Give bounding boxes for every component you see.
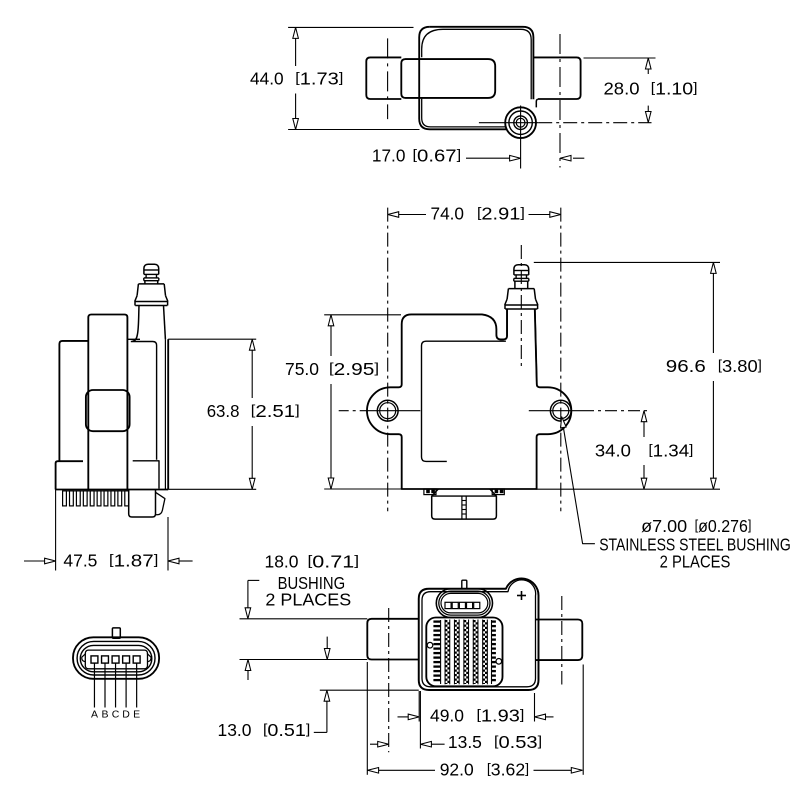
side view: left flange	[56, 461, 83, 489]
dimension 18.0 leader and arrows	[248, 579, 259, 581]
svg-text:17.0: 17.0	[372, 146, 406, 166]
svg-text:[1.87]: [1.87]	[109, 551, 158, 571]
dimension 47.5 left extension line	[55, 490, 57, 571]
connector face view: key tab	[112, 628, 120, 638]
top view: left tab centerline	[387, 38, 389, 119]
bottom view: connector outer oval	[436, 589, 492, 618]
dimension 44.0 top extension line	[288, 26, 413, 28]
front view: connector flange trapezoid	[432, 489, 497, 496]
connector face view: third shell oval	[80, 645, 152, 671]
front view: right ear bushing circles	[550, 400, 571, 421]
bottom view: left tab centerline	[388, 608, 390, 752]
svg-text:[1.10]: [1.10]	[651, 79, 698, 99]
svg-text:[ø0.276]: [ø0.276]	[695, 516, 752, 536]
side view: tower boot left edge	[132, 306, 139, 342]
side view: bottom connector	[129, 490, 156, 517]
svg-text:[1.34]: [1.34]	[649, 441, 694, 461]
dimension 92.0 dim line with arrows	[368, 769, 435, 771]
svg-text:44.0: 44.0	[250, 69, 284, 89]
bottom view: connector inner oval	[441, 593, 488, 613]
side view: left block	[59, 341, 88, 461]
front view: inner profile step line	[422, 341, 506, 461]
dimension 44.0 dim line with arrows	[295, 27, 297, 66]
bottom view: body outer outline with corner lobe	[419, 579, 539, 690]
top view: bushing vertical centerline / 17.0 extension	[520, 106, 522, 169]
dimension 13.0 arrows and leader	[326, 637, 328, 649]
dimension 47.5 dim line with arrows	[24, 560, 45, 562]
side view: shoulder line segment	[127, 338, 140, 340]
front view: tower boot left edge	[506, 309, 508, 336]
svg-text:13.5: 13.5	[448, 732, 482, 752]
connector face view: terminal pins A-E	[91, 656, 98, 663]
connector face view: second shell oval	[77, 641, 155, 675]
connector face view: pin leader lines	[93, 663, 95, 707]
svg-text:[0.53]: [0.53]	[494, 732, 542, 752]
svg-text:ø7.00: ø7.00	[641, 516, 687, 536]
dimension 28.0 dim line with arrows	[647, 58, 649, 74]
dimension 49.0 extension lines	[418, 691, 420, 722]
svg-text:[2.91]: [2.91]	[477, 204, 525, 224]
side view: center pad	[86, 390, 130, 431]
dimension 34.0 dim line with arrows	[643, 411, 645, 437]
front view: left ear centerline cross	[366, 410, 420, 412]
svg-text:[0.67]: [0.67]	[413, 146, 462, 166]
front view: connector body	[432, 496, 497, 519]
svg-text:E: E	[133, 709, 140, 721]
svg-text:47.5: 47.5	[63, 551, 97, 571]
bottom view: right mounting tab	[536, 620, 582, 661]
svg-text:A: A	[91, 709, 98, 721]
side view: pin fins comb	[63, 490, 129, 492]
dimension 75.0 dim line with arrows	[330, 315, 332, 356]
side view: body bottom edge	[56, 489, 169, 491]
bottom view: body inner outline	[422, 580, 536, 687]
svg-text:18.0: 18.0	[265, 552, 299, 572]
svg-text:13.0: 13.0	[218, 720, 252, 740]
dimension 75.0 bottom extension line	[324, 488, 402, 490]
dimension 63.8 bottom extension line	[168, 488, 256, 490]
svg-text:74.0: 74.0	[431, 204, 465, 224]
dimension 63.8 dim line with arrows	[251, 339, 253, 398]
dimension 96.6 top extension line	[534, 261, 720, 263]
bottom view: right tab centerline	[561, 596, 563, 685]
dimension 13.5 extension line	[419, 691, 421, 749]
bottom view: heat sink ladder strips	[444, 620, 446, 685]
dimension 75.0 top extension line	[324, 314, 401, 316]
svg-text:2 PLACES: 2 PLACES	[660, 552, 731, 572]
front view: connector right bracket	[492, 489, 504, 495]
front view: left ear vertical centerline	[387, 208, 389, 512]
connector face view: terminal cavity	[85, 650, 147, 669]
bottom view: connector middle oval	[439, 591, 490, 615]
top view: right tab centerline	[559, 34, 561, 168]
front view: connector left bracket	[424, 489, 436, 495]
svg-text:[2.95]: [2.95]	[329, 359, 379, 379]
svg-text:[1.73]: [1.73]	[295, 69, 343, 89]
top view: left mounting tab	[366, 57, 401, 99]
dimension 18.0 bottom extension line	[240, 659, 368, 661]
svg-text:34.0: 34.0	[595, 441, 631, 461]
side view: right wall inner line	[164, 339, 166, 489]
dimension 96.6 dim line with arrows	[712, 262, 714, 353]
svg-text:49.0: 49.0	[430, 706, 464, 726]
dimension 49.0 dim line with arrows	[398, 716, 409, 718]
front view: body outline with mounting ears	[367, 309, 571, 489]
bottom view: heat sink left comb	[433, 620, 440, 622]
dimension 13.5 dim line with arrows	[370, 743, 378, 745]
dimension 96.6 bottom extension line	[537, 488, 720, 490]
bottom view: screw hole right	[496, 659, 502, 665]
side view: connector latch	[156, 492, 165, 514]
front view: tower boot right edge	[535, 309, 537, 384]
bottom view: left mounting tab	[367, 619, 419, 660]
bottom view: screw hole left	[427, 642, 433, 648]
svg-text:[2.51]: [2.51]	[251, 401, 300, 421]
svg-text:[0.51]: [0.51]	[263, 720, 310, 740]
svg-text:63.8: 63.8	[207, 401, 240, 421]
svg-text:B: B	[101, 709, 108, 721]
top view: body outer outline	[430, 27, 534, 99]
svg-text:D: D	[122, 709, 130, 721]
svg-text:[1.93]: [1.93]	[477, 706, 525, 726]
side view: center spine block	[88, 315, 127, 491]
bottom view: heat sink block	[426, 618, 502, 687]
connector face view: outer shell oval	[73, 637, 159, 679]
svg-text:C: C	[112, 709, 120, 721]
svg-text:96.6: 96.6	[666, 356, 706, 376]
svg-text:2 PLACES: 2 PLACES	[265, 590, 351, 610]
dimension 92.0 extension lines	[366, 662, 368, 775]
bottom view: connector key tab	[462, 580, 467, 589]
front view: connector keyway	[461, 496, 463, 519]
dimension 18.0 top extension line	[240, 618, 368, 620]
top view: right side step to bushing boss	[536, 99, 538, 107]
side view: tower boot right edge	[164, 306, 166, 340]
side view: right panel	[131, 342, 157, 460]
dimension 13.0 extension line	[320, 689, 419, 691]
bushing callout leader arrow	[563, 427, 595, 544]
bottom view: connector pins	[445, 602, 451, 608]
dimension 44.0 bottom extension line	[288, 129, 419, 131]
bottom view: polarity plus mark	[517, 595, 526, 597]
dimension 47.5 right extension line	[167, 517, 169, 571]
top view: body inner outline	[422, 29, 443, 57]
connector face view: right lock feature	[147, 653, 151, 661]
top view: bushing concentric circles	[505, 107, 536, 138]
top view: right mounting tab	[533, 57, 580, 99]
front view: right ear vertical centerline	[560, 208, 562, 512]
side view: high-voltage tower	[144, 264, 159, 274]
svg-text:[0.71]: [0.71]	[308, 552, 360, 572]
dimension 74.0 dim line with arrows	[388, 214, 426, 216]
front view: right ear centerline cross	[529, 410, 582, 412]
side view: right wall outer line	[167, 339, 169, 489]
svg-text:28.0: 28.0	[604, 79, 640, 99]
top view: bushing horizontal centerline	[479, 122, 538, 124]
svg-text:[3.62]: [3.62]	[487, 760, 529, 780]
top view: center bar slot	[401, 59, 495, 98]
dimension 28.0 top extension line	[584, 57, 656, 59]
svg-text:[3.80]: [3.80]	[718, 356, 762, 376]
front view: left ear bushing circles	[377, 400, 398, 421]
front view: high-voltage tower	[514, 265, 529, 275]
svg-text:75.0: 75.0	[285, 359, 319, 379]
dimension 63.8 top extension line	[168, 338, 256, 340]
front view: tower vertical centerline	[520, 245, 522, 370]
side view: right flange	[133, 461, 159, 489]
connector face view: left lock feature	[82, 653, 86, 661]
svg-text:92.0: 92.0	[440, 760, 474, 780]
bottom view: heat sink right comb	[492, 620, 496, 622]
